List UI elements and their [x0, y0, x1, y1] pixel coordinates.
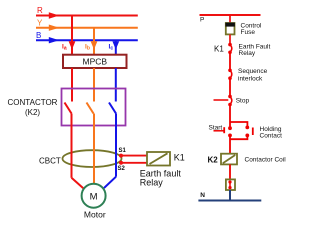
svg-text:K1: K1	[214, 44, 224, 53]
svg-text:Fuse: Fuse	[241, 29, 256, 36]
svg-text:Motor: Motor	[84, 209, 106, 219]
wire coil to overload	[229, 164, 231, 179]
svg-text:Sequence: Sequence	[238, 68, 268, 75]
wire MPCB to contactor phase Y	[93, 68, 95, 102]
MPCB U1	[63, 55, 127, 68]
CBCT core	[39, 150, 122, 167]
current arrow Ib	[85, 41, 97, 51]
contactor pole R blade	[65, 103, 72, 114]
wire stop to start	[229, 105, 231, 129]
wire contactor to motor phase B	[104, 114, 116, 189]
bus P	[200, 15, 261, 23]
svg-text:Relay: Relay	[140, 177, 164, 187]
phase bus Y	[36, 19, 138, 31]
svg-text:Contactor Coil: Contactor Coil	[245, 156, 287, 163]
svg-text:interlock: interlock	[238, 76, 263, 83]
svg-text:Start: Start	[209, 125, 223, 132]
wire P to fuse	[229, 15, 231, 24]
wire S2 to relay	[121, 162, 147, 164]
current arrow Ia	[62, 41, 75, 51]
wire start to coil	[229, 135, 231, 154]
svg-text:M: M	[90, 191, 98, 202]
node S2	[118, 161, 126, 172]
wire S1 to relay	[121, 155, 147, 157]
wire phase Y drop	[93, 28, 95, 55]
svg-text:K1: K1	[174, 152, 185, 162]
wire contactor to motor phase R	[72, 114, 84, 189]
wire phase R drop	[71, 16, 73, 56]
svg-text:P: P	[200, 16, 204, 23]
wire MPCB to contactor phase R	[71, 68, 73, 102]
svg-text:B: B	[36, 31, 41, 40]
wire holding contact branch top	[230, 122, 247, 127]
svg-text:Y: Y	[37, 19, 43, 28]
bus N	[198, 192, 261, 200]
wire contactor to motor phase Y	[93, 114, 95, 184]
wire sequence interlock to stop	[229, 78, 231, 96]
contact holding NO	[245, 126, 282, 140]
wire overload to N	[229, 190, 231, 201]
contact stop pushbutton	[214, 95, 250, 107]
svg-text:Ib: Ib	[85, 44, 90, 52]
wire K1 contact to sequence interlock	[229, 52, 231, 70]
node S1	[119, 148, 127, 158]
wire phase B drop	[115, 40, 117, 55]
svg-text:Contact: Contact	[260, 133, 283, 140]
svg-text:N: N	[200, 192, 205, 199]
svg-text:Ia: Ia	[62, 44, 67, 52]
overload element	[226, 179, 235, 190]
svg-text:Relay: Relay	[239, 50, 256, 57]
contactor pole Y blade	[87, 103, 94, 114]
contact sequence interlock	[228, 68, 267, 83]
motor M	[82, 184, 106, 220]
svg-text:R: R	[37, 6, 43, 15]
control fuse F1	[225, 22, 262, 36]
contact start pushbutton NO	[209, 125, 232, 138]
svg-text:Stop: Stop	[236, 98, 250, 105]
svg-text:K2: K2	[208, 155, 219, 164]
svg-text:(K2): (K2)	[25, 108, 40, 117]
wire holding contact branch bottom	[230, 135, 247, 139]
wire fuse to K1 contact	[229, 34, 231, 45]
phase bus R	[36, 6, 138, 19]
svg-text:MPCB: MPCB	[83, 57, 108, 67]
contactor coil K2	[208, 154, 287, 165]
svg-text:S2: S2	[118, 166, 126, 172]
wire MPCB to contactor phase B	[115, 68, 117, 102]
svg-text:S1: S1	[119, 148, 127, 154]
phase bus B	[36, 31, 138, 43]
contact K1 earth fault relay NC	[214, 43, 270, 57]
contactor K2 box	[8, 89, 126, 126]
current arrow Ic	[109, 41, 120, 51]
svg-text:CONTACTOR: CONTACTOR	[8, 98, 58, 107]
svg-text:CBCT: CBCT	[39, 156, 61, 165]
earth fault relay K1	[140, 152, 185, 187]
svg-text:Ic: Ic	[109, 44, 114, 52]
contactor pole B blade	[109, 103, 116, 114]
